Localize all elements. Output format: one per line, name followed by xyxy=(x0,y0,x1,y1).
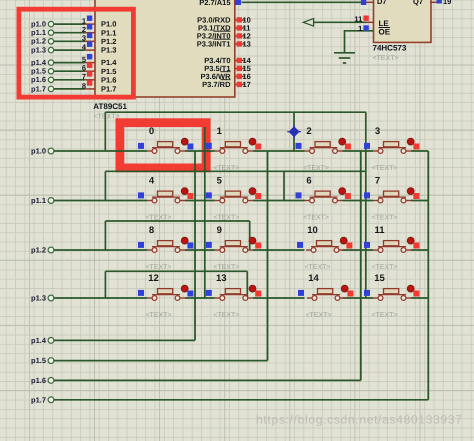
node p1.4 terminal circle xyxy=(48,338,54,344)
MCU pin 3 P1.2 with node p1.2 xyxy=(48,33,95,44)
svg-text:14: 14 xyxy=(308,273,319,284)
svg-text:11: 11 xyxy=(374,225,385,236)
wire MCU P0.7 to latch D7 xyxy=(242,1,362,3)
push button 1 xyxy=(206,138,261,153)
MCU pin 1 P1.0 with node p1.0 xyxy=(48,16,95,27)
svg-text:Q7: Q7 xyxy=(413,0,423,6)
svg-text:p1.6: p1.6 xyxy=(31,75,46,84)
wire feed top horizontal xyxy=(105,111,366,113)
svg-text:6: 6 xyxy=(306,176,311,187)
svg-text:P3.7/RD: P3.7/RD xyxy=(202,80,231,89)
push button 6 xyxy=(296,188,351,203)
wire bypass row3 left drop xyxy=(104,271,106,298)
svg-text:<TEXT>: <TEXT> xyxy=(304,264,330,271)
push button 3 xyxy=(364,138,419,153)
svg-text:<TEXT>: <TEXT> xyxy=(303,165,329,172)
svg-text:8: 8 xyxy=(149,225,154,236)
svg-text:1: 1 xyxy=(217,126,223,137)
MCU pin 15 P3.5/T1 xyxy=(235,64,251,73)
svg-text:12: 12 xyxy=(148,273,159,284)
MCU pin 6 P1.5 with node p1.5 xyxy=(48,63,95,74)
svg-text:p1.2: p1.2 xyxy=(31,37,46,46)
node p1.5 terminal circle xyxy=(48,358,54,364)
svg-text:2: 2 xyxy=(306,126,311,137)
wire bypass row1 horizontal xyxy=(105,170,365,172)
MCU pin 28 P2.7 state square xyxy=(235,0,241,5)
svg-text:P2.7/A15: P2.7/A15 xyxy=(199,0,230,7)
svg-text:<TEXT>: <TEXT> xyxy=(213,312,239,319)
wire bypass row2 horizontal xyxy=(105,220,249,222)
svg-text:p1.6: p1.6 xyxy=(31,376,46,385)
push button 10 xyxy=(297,237,352,252)
overline INT1 xyxy=(214,38,231,40)
svg-text:D7: D7 xyxy=(377,0,387,6)
wire row p1.5 horizontal xyxy=(54,360,268,362)
svg-text:11: 11 xyxy=(354,15,362,24)
svg-text:<TEXT>: <TEXT> xyxy=(303,215,329,222)
svg-text:p1.3: p1.3 xyxy=(31,46,46,55)
svg-text:<TEXT>: <TEXT> xyxy=(373,55,399,62)
push button 5 xyxy=(206,188,261,203)
MCU U1 AT89C51 body xyxy=(95,0,235,97)
svg-text:https://blog.csdn.net/as480133: https://blog.csdn.net/as480133937 xyxy=(256,413,463,427)
svg-text:AT89C51: AT89C51 xyxy=(93,102,127,111)
svg-text:p1.4: p1.4 xyxy=(31,336,47,345)
annotation red box around MCU P1 pins xyxy=(19,9,133,97)
svg-text:0: 0 xyxy=(149,126,154,137)
node p1.2 terminal circle xyxy=(48,247,54,253)
wire keypad column 1 vertical xyxy=(267,151,269,361)
svg-text:74HC573: 74HC573 xyxy=(373,44,407,53)
push button 12 xyxy=(138,285,193,300)
latch pin 8 D7 stub xyxy=(361,1,374,3)
svg-text:5: 5 xyxy=(217,176,223,187)
svg-text:<TEXT>: <TEXT> xyxy=(145,264,171,271)
MCU pin 12 P3.2/INT0 xyxy=(235,32,251,41)
svg-text:1: 1 xyxy=(358,24,362,33)
wire row p1.1 horizontal xyxy=(54,200,428,202)
overline WR xyxy=(221,71,231,73)
svg-text:<TEXT>: <TEXT> xyxy=(371,264,397,271)
svg-text:7: 7 xyxy=(375,176,380,187)
wire keypad column 2 vertical xyxy=(360,151,362,380)
MCU pin 16 P3.6/WR xyxy=(235,72,251,81)
push button 14 xyxy=(298,285,353,300)
push button 4 xyxy=(138,188,193,203)
node p1.7 terminal circle xyxy=(48,397,54,403)
ground symbol xyxy=(334,53,355,63)
svg-text:<TEXT>: <TEXT> xyxy=(305,312,331,319)
svg-text:P1.2: P1.2 xyxy=(101,37,116,46)
wire inter-row vertical near col A xyxy=(204,127,206,298)
svg-text:p1.2: p1.2 xyxy=(31,246,46,255)
wire keypad column 3 vertical xyxy=(427,151,429,400)
svg-text:P1.3: P1.3 xyxy=(101,46,116,55)
svg-text:P1.6: P1.6 xyxy=(101,75,116,84)
push button 2 xyxy=(296,138,351,153)
svg-text:p1.5: p1.5 xyxy=(31,356,46,365)
svg-text:p1.7: p1.7 xyxy=(31,84,46,93)
MCU pin 17 P3.7/RD xyxy=(235,80,251,89)
svg-text:<TEXT>: <TEXT> xyxy=(371,215,397,222)
wire row p1.6 horizontal xyxy=(54,379,361,381)
push button 13 xyxy=(206,285,261,300)
latch pin 11 stub xyxy=(367,21,374,23)
svg-text:9: 9 xyxy=(217,225,222,236)
node p1.3 terminal circle xyxy=(48,295,54,301)
wire bypass row2 left drop xyxy=(104,221,106,250)
MCU pin 13 P3.3/INT1 xyxy=(235,40,251,49)
svg-text:OE: OE xyxy=(379,28,391,37)
svg-text:13: 13 xyxy=(243,40,251,49)
svg-text:10: 10 xyxy=(307,225,318,236)
push button 15 xyxy=(364,285,419,300)
push button 7 xyxy=(364,188,419,203)
wire bypass row2 right drop xyxy=(249,221,251,250)
push button 9 xyxy=(206,237,261,252)
wire keypad column 0 vertical xyxy=(194,151,196,340)
latch pin 19 Q7 stub xyxy=(430,1,437,3)
svg-text:15: 15 xyxy=(374,273,385,284)
latch pin 11 state square xyxy=(363,16,368,21)
svg-text:8: 8 xyxy=(82,81,86,90)
MCU pin 4 P1.3 with node p1.3 xyxy=(48,42,95,53)
MCU pin 14 P3.4/T0 xyxy=(235,56,252,65)
wire latch OE pin 1 to ground xyxy=(345,31,374,53)
wire row p1.0 horizontal xyxy=(54,150,428,152)
MCU pin 5 P1.4 with node p1.4 xyxy=(48,54,95,65)
svg-text:P1.7: P1.7 xyxy=(101,85,116,94)
wire bypass row1 left drop xyxy=(104,171,106,200)
svg-text:3: 3 xyxy=(375,126,380,137)
latch pin 8 state square xyxy=(361,0,366,5)
latch U2 74HC573 body xyxy=(374,0,432,42)
svg-text:7: 7 xyxy=(82,72,86,81)
wire row p1.2 horizontal xyxy=(54,249,428,251)
MCU pin 10 P3.0/RXD xyxy=(235,16,251,25)
origin marker blue diamond xyxy=(287,125,301,139)
node p1.0 terminal circle xyxy=(48,148,54,154)
svg-text:<TEXT>: <TEXT> xyxy=(213,264,239,271)
svg-text:3: 3 xyxy=(82,34,86,43)
wire drop to button 2 area xyxy=(293,112,295,151)
node p1.1 terminal circle xyxy=(48,198,54,204)
svg-text:p1.1: p1.1 xyxy=(31,196,46,205)
MCU pin 2 P1.1 with node p1.1 xyxy=(48,24,95,35)
svg-text:<TEXT>: <TEXT> xyxy=(145,215,171,222)
latch pin 19 state square xyxy=(437,0,442,4)
svg-text:4: 4 xyxy=(149,176,155,187)
svg-text:p1.7: p1.7 xyxy=(31,395,46,404)
wire row p1.7 horizontal xyxy=(54,399,428,401)
wire feed drop to row p1.0 xyxy=(104,112,106,151)
svg-text:LE: LE xyxy=(379,19,390,28)
push button 0 xyxy=(138,138,193,153)
svg-text:<TEXT>: <TEXT> xyxy=(371,165,397,172)
wire arrow to latch LE pin 11 xyxy=(314,21,367,23)
MCU pin 7 P1.6 with node p1.6 xyxy=(48,71,95,82)
wire bypass row3 right drop xyxy=(246,271,248,298)
wire row p1.4 horizontal xyxy=(54,339,195,341)
svg-text:p1.0: p1.0 xyxy=(31,147,46,156)
svg-text:P3.3/INT1: P3.3/INT1 xyxy=(197,40,231,49)
wire bypass row1 right drop xyxy=(283,171,285,200)
svg-text:<TEXT>: <TEXT> xyxy=(213,165,239,172)
wire bypass row3 horizontal xyxy=(105,270,247,272)
svg-text:17: 17 xyxy=(243,80,251,89)
svg-text:<TEXT>: <TEXT> xyxy=(145,312,171,319)
MCU pin 8 P1.7 with node p1.7 xyxy=(48,80,95,91)
wire row p1.3 horizontal xyxy=(54,297,428,299)
overline INT0 xyxy=(214,30,231,32)
svg-text:<TEXT>: <TEXT> xyxy=(371,312,397,319)
latch pin 1 state square xyxy=(363,25,368,30)
MCU pin 11 P3.1/TXD xyxy=(235,24,251,33)
wire drop column C long xyxy=(365,112,367,298)
svg-text:<TEXT>: <TEXT> xyxy=(213,215,239,222)
push button 11 xyxy=(364,237,419,252)
node p1.6 terminal circle xyxy=(48,378,54,384)
input terminal arrow to LE xyxy=(303,19,313,27)
annotation red box around button 0 xyxy=(120,123,206,168)
svg-text:19: 19 xyxy=(443,0,451,6)
overline RD xyxy=(221,79,231,81)
overline OE xyxy=(379,27,391,29)
svg-text:13: 13 xyxy=(216,273,227,284)
push button 8 xyxy=(138,237,193,252)
svg-text:p1.3: p1.3 xyxy=(31,294,46,303)
